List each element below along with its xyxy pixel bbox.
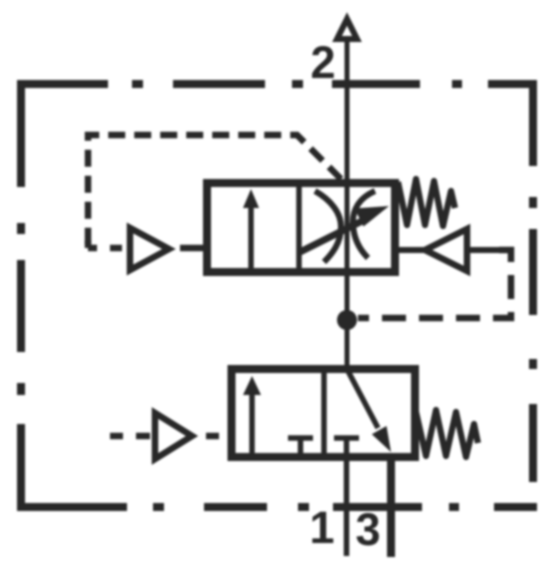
svg-text:2: 2 [310, 37, 335, 88]
svg-text:3: 3 [355, 504, 380, 555]
svg-text:1: 1 [309, 502, 334, 553]
